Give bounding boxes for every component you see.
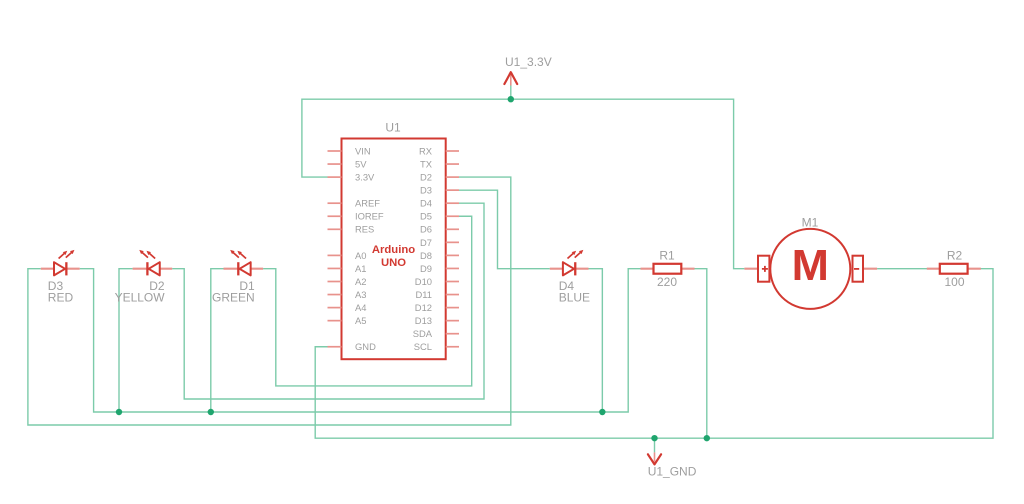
pin 5V (328, 158, 368, 169)
wire net U1_3.3V: 3.3V pin, top rail, motor + terminal (302, 99, 745, 269)
svg-text:D5: D5 (420, 211, 432, 222)
wire LED D1 GREEN left branch (211, 269, 224, 412)
LED D2 YELLOW (115, 250, 173, 305)
motor M1 (744, 215, 877, 309)
pin D6 (420, 224, 459, 235)
svg-text:SCL: SCL (414, 341, 432, 352)
pin D5 (420, 211, 459, 222)
pin IOREF (328, 211, 384, 222)
pin VIN (328, 145, 371, 156)
svg-text:TX: TX (420, 158, 433, 169)
svg-text:SDA: SDA (413, 328, 433, 339)
pin A1 (328, 263, 367, 274)
wire net D5 pin to LED D1 GREEN right (263, 216, 472, 386)
svg-text:R2: R2 (947, 248, 963, 262)
svg-text:5V: 5V (355, 158, 367, 169)
LED D1 GREEN (212, 250, 263, 305)
svg-text:YELLOW: YELLOW (115, 291, 166, 305)
pin A3 (328, 289, 367, 300)
wire net GND: GND pin, bottom rail, R2 right (315, 269, 993, 438)
pin 3.3V (328, 172, 376, 183)
pin A4 (328, 302, 367, 313)
svg-text:R1: R1 (659, 248, 675, 262)
wire ground flag stem (654, 438, 656, 452)
svg-text:GND: GND (355, 341, 376, 352)
svg-text:D3: D3 (420, 185, 432, 196)
svg-text:D9: D9 (420, 263, 432, 274)
svg-text:RED: RED (48, 291, 74, 305)
pin D10 (415, 276, 459, 287)
wire LED D4 BLUE right branch (589, 269, 603, 412)
svg-text:U1: U1 (385, 120, 401, 134)
pin D11 (415, 289, 459, 300)
node R1 right junction (704, 435, 710, 441)
svg-text:A0: A0 (355, 250, 366, 261)
resistor R1 220 (641, 248, 695, 288)
wire motor M1 right to R2 left (877, 268, 928, 270)
pin GND (328, 341, 377, 352)
svg-text:M1: M1 (802, 215, 819, 229)
svg-text:IOREF: IOREF (355, 211, 384, 222)
svg-text:D8: D8 (420, 250, 432, 261)
motor - terminal mark (854, 268, 859, 270)
pin D12 (415, 302, 459, 313)
svg-text:A3: A3 (355, 289, 366, 300)
pin RES (328, 224, 375, 235)
svg-text:Arduino: Arduino (372, 244, 415, 256)
wire net LED commons to R1 left (80, 269, 641, 412)
svg-text:D7: D7 (420, 237, 432, 248)
svg-text:A2: A2 (355, 276, 366, 287)
svg-text:U1_GND: U1_GND (648, 465, 697, 479)
svg-text:VIN: VIN (355, 145, 371, 156)
svg-text:D6: D6 (420, 224, 432, 235)
svg-text:D12: D12 (415, 302, 432, 313)
svg-text:RES: RES (355, 224, 374, 235)
svg-text:RX: RX (419, 145, 433, 156)
svg-text:GREEN: GREEN (212, 291, 255, 305)
pin D8 (420, 250, 459, 261)
svg-text:U1_3.3V: U1_3.3V (505, 55, 552, 69)
pin A5 (328, 315, 367, 326)
resistor R2 100 (927, 248, 981, 288)
motor + terminal mark (762, 266, 768, 272)
svg-text:D13: D13 (415, 315, 432, 326)
pin D2 (420, 172, 459, 183)
IC U1 Arduino UNO (342, 120, 446, 359)
pin A2 (328, 276, 367, 287)
power flag U1_3.3V (504, 55, 551, 86)
LED D3 RED (41, 250, 80, 305)
svg-text:D11: D11 (415, 289, 432, 300)
node LED D2 YELLOW left junction (116, 409, 122, 415)
pin A0 (328, 250, 367, 261)
node LED D1 GREEN left junction (208, 409, 214, 415)
svg-text:A4: A4 (355, 302, 366, 313)
node ground flag junction (651, 435, 657, 441)
pin AREF (328, 198, 381, 209)
pin RX (419, 145, 459, 156)
svg-text:BLUE: BLUE (559, 291, 590, 305)
svg-text:A5: A5 (355, 315, 366, 326)
pin SDA (413, 328, 459, 339)
wire R1 right to GND rail (694, 269, 707, 438)
svg-text:M: M (792, 241, 829, 290)
LED D4 BLUE (550, 250, 590, 305)
svg-text:D2: D2 (420, 172, 432, 183)
pin SCL (414, 341, 459, 352)
wire LED D2 YELLOW left branch (119, 269, 133, 412)
svg-text:D10: D10 (415, 276, 432, 287)
pin D13 (415, 315, 459, 326)
svg-text:3.3V: 3.3V (355, 172, 375, 183)
node LED D4 BLUE right junction (599, 409, 605, 415)
svg-text:A1: A1 (355, 263, 366, 274)
wire net D3 pin to LED D4 BLUE left (459, 190, 550, 269)
svg-text:UNO: UNO (381, 257, 406, 269)
ground U1_GND (648, 452, 697, 478)
pin TX (420, 158, 459, 169)
svg-text:220: 220 (657, 275, 677, 289)
svg-text:100: 100 (944, 275, 964, 289)
wire net D4 pin to LED D2 YELLOW right (172, 203, 484, 399)
pin D7 (420, 237, 459, 248)
pin D4 (420, 198, 459, 209)
pin D9 (420, 263, 459, 274)
node power junction (508, 96, 514, 102)
wire net D2 pin to LED D3 RED left (28, 177, 511, 425)
svg-text:D4: D4 (420, 198, 432, 209)
svg-text:AREF: AREF (355, 198, 380, 209)
pin D3 (420, 185, 459, 196)
wire power flag stem (510, 86, 512, 100)
